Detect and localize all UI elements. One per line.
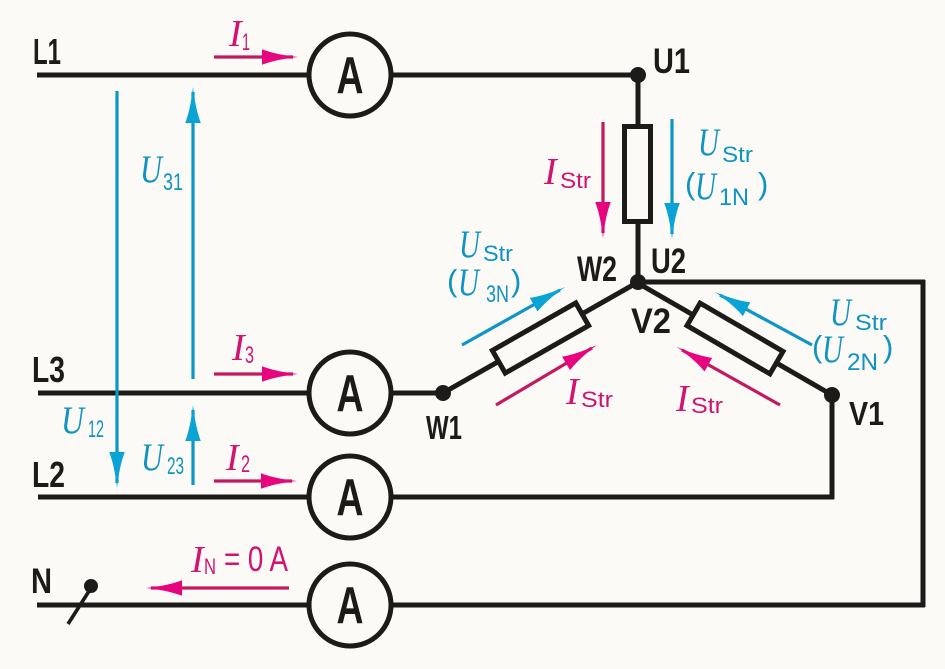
svg-text:W1: W1 (426, 409, 462, 446)
svg-text:W2: W2 (577, 250, 617, 289)
svg-text:N: N (31, 562, 52, 601)
svg-text:1N: 1N (719, 184, 749, 211)
label I3 (231, 327, 254, 369)
svg-text:U: U (459, 223, 482, 266)
wire right edge vertical down to N (921, 280, 926, 607)
label V2 (631, 302, 671, 341)
voltage arrow U23 (upward) (185, 405, 201, 485)
label V1 (849, 395, 884, 432)
svg-text:U: U (698, 121, 721, 164)
svg-text:): ) (511, 263, 521, 298)
current arrow I3 (214, 366, 298, 382)
svg-text:A: A (337, 469, 364, 527)
star point node dot (630, 274, 646, 290)
label U23 (141, 436, 184, 480)
voltage arrow UStr/U2N (up-left, right winding) (711, 285, 812, 345)
label L1 (33, 31, 61, 72)
svg-text:I: I (565, 371, 581, 413)
node W1 junction dot (435, 385, 451, 401)
winding resistor U1-U2 (vertical) (625, 127, 651, 222)
node U1 junction dot (630, 67, 646, 83)
svg-text:U: U (61, 399, 86, 442)
svg-text:U: U (822, 328, 845, 371)
wire L2 horizontal (38, 495, 834, 500)
label UStr (U3N) (447, 223, 521, 308)
label I1 (228, 13, 250, 56)
svg-text:Str: Str (691, 393, 723, 418)
current arrow IStr (right winding, up-left) (673, 340, 780, 405)
svg-text:I: I (543, 151, 559, 193)
wire N horizontal (37, 603, 925, 608)
svg-text:A: A (337, 365, 364, 423)
label UStr (U1N) (685, 121, 768, 211)
svg-text:I: I (675, 378, 691, 420)
wire star point to right edge (636, 280, 925, 285)
svg-text:I: I (225, 437, 241, 479)
wire U1 vertical drop to star point (636, 73, 641, 284)
svg-text:Str: Str (581, 387, 613, 412)
label I2 (225, 437, 250, 479)
current arrow IN (pointing left) (146, 580, 289, 596)
label L3 (32, 349, 65, 390)
svg-text:31: 31 (163, 169, 183, 196)
svg-text:3N: 3N (486, 281, 509, 308)
svg-text:U: U (140, 148, 164, 191)
label U2 (651, 242, 686, 281)
svg-text:L3: L3 (32, 349, 65, 390)
svg-text:Str: Str (483, 241, 513, 266)
svg-text:23: 23 (167, 453, 184, 480)
label U1 (653, 42, 690, 81)
switch dot on N conductor (84, 579, 98, 593)
svg-text:(: ( (447, 263, 458, 298)
svg-text:): ) (758, 166, 768, 201)
svg-text:V1: V1 (849, 395, 884, 432)
svg-text:): ) (883, 329, 893, 364)
svg-text:U: U (695, 165, 718, 208)
svg-text:U: U (141, 436, 165, 479)
current arrow IStr (left winding, up-right) (496, 338, 601, 405)
svg-text:U2: U2 (651, 242, 686, 281)
ammeter A on L2 (309, 456, 391, 538)
wire W1 branch to star point (443, 281, 640, 393)
winding resistor V1-V2 (right, angled) (687, 303, 783, 374)
svg-text:U1: U1 (653, 42, 690, 81)
label UStr (U2N) (812, 291, 893, 376)
svg-text:A: A (337, 47, 364, 105)
label U12 (61, 399, 104, 443)
svg-text:L1: L1 (33, 31, 61, 72)
label IN = 0 A (190, 539, 289, 581)
voltage arrow U12 (downward) (109, 91, 125, 488)
node V1 junction dot (824, 387, 840, 403)
svg-text:Str: Str (560, 168, 591, 193)
ammeter A on L1 (309, 34, 391, 116)
current arrow IStr (top winding, downward) (595, 122, 611, 238)
svg-text:1: 1 (242, 29, 250, 56)
svg-text:2: 2 (241, 451, 250, 478)
label W1 (426, 409, 462, 446)
switch stroke on N conductor (68, 588, 91, 624)
svg-text:A: A (337, 577, 364, 635)
svg-text:Str: Str (722, 142, 753, 167)
label IStr (top winding) (543, 151, 591, 193)
label IStr (left winding) (565, 371, 613, 413)
voltage arrow UStr/U1N (downward, right of top winding) (664, 119, 680, 239)
label N (31, 562, 52, 601)
svg-text:L2: L2 (32, 454, 65, 495)
label W2 (577, 250, 617, 289)
label L2 (32, 454, 65, 495)
winding resistor W1-W2 (left, angled) (492, 303, 588, 373)
svg-text:3: 3 (245, 342, 254, 369)
current arrow I1 (214, 49, 298, 65)
label IStr (right winding) (675, 378, 723, 420)
svg-text:V2: V2 (631, 302, 671, 341)
wire L3 horizontal (38, 391, 445, 396)
svg-text:12: 12 (88, 416, 104, 443)
wire L1 horizontal (37, 73, 640, 78)
voltage arrow U31 (upward) (185, 87, 201, 379)
ammeter A on L3 (309, 352, 391, 434)
svg-text:U: U (458, 261, 481, 304)
current arrow I2 (214, 473, 297, 489)
svg-text:= 0 A: = 0 A (224, 540, 289, 579)
wire V1 branch to star point (636, 282, 832, 395)
svg-text:N: N (204, 554, 216, 579)
svg-text:2N: 2N (847, 349, 878, 376)
label U31 (140, 148, 183, 196)
ammeter A on N (309, 564, 391, 646)
voltage arrow UStr/U3N (up-right, left winding) (462, 280, 569, 345)
wire V1 vertical riser (830, 393, 835, 499)
